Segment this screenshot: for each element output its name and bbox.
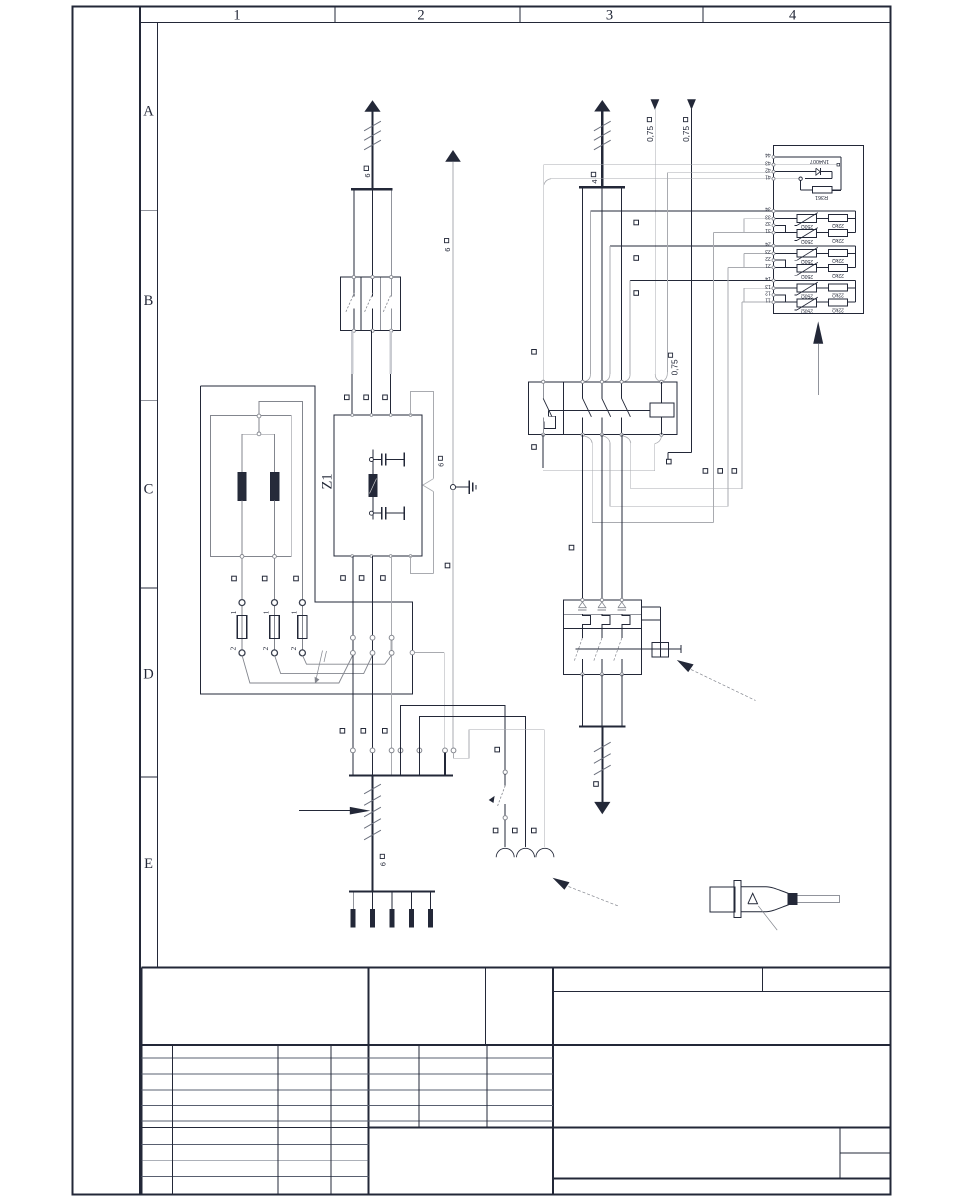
wire contactor to motor breaker (3)	[569, 435, 622, 600]
svg-text:14: 14	[765, 275, 771, 281]
wire fuse F1 to terminal L1	[242, 655, 353, 683]
wire feed arrow top-left	[364, 100, 381, 188]
wire resistor tap network (gray)	[232, 402, 303, 601]
aux bracket and test button	[642, 607, 681, 657]
wire PE to socket pin3 (gray)	[454, 730, 545, 847]
svg-text:22kΩ: 22kΩ	[832, 272, 844, 278]
pilot wire arrow 0,75 (second)	[667, 99, 696, 464]
svg-text:1N4007: 1N4007	[810, 158, 829, 164]
svg-text:4: 4	[789, 8, 797, 24]
label 0,75 (coil wire)	[668, 353, 679, 375]
bus bar N1	[349, 774, 453, 776]
svg-text:21: 21	[765, 262, 771, 268]
contactor coil K1	[650, 382, 674, 435]
svg-text:A: A	[143, 104, 154, 120]
wire module pin43 to contactor (gray)	[532, 165, 774, 381]
wire contactor L3 out to module S3 (gray)	[623, 288, 773, 489]
svg-text:34: 34	[765, 206, 771, 212]
svg-text:250Ω: 250Ω	[801, 293, 813, 299]
shield enclosure (gray)	[210, 416, 291, 557]
svg-text:22kΩ: 22kΩ	[832, 307, 844, 313]
wire bus to socket pin1	[401, 706, 506, 775]
motor protection breaker QM1	[563, 598, 641, 676]
svg-text:1: 1	[233, 8, 240, 24]
svg-text:13: 13	[765, 283, 771, 289]
wire fuse F3 to terminal L3	[302, 655, 391, 664]
svg-text:2: 2	[417, 8, 424, 24]
wire bar to contactor (3)	[583, 188, 622, 382]
disconnect contact S1	[489, 770, 508, 847]
wire PE riser to earth bar	[364, 777, 388, 891]
module pins 41-44	[765, 152, 775, 181]
svg-text:6: 6	[443, 248, 452, 252]
earth terminal bar (comb)	[349, 892, 435, 927]
module section 1: varistors and resistors	[765, 206, 856, 244]
leader arrow (test button callout)	[677, 660, 756, 701]
connector squares at socket	[493, 747, 536, 833]
svg-text:24: 24	[765, 240, 771, 246]
wire breaker to filter Z1	[345, 331, 391, 415]
terminal row nodes	[351, 635, 395, 655]
module section 2: varistors and resistors	[765, 240, 856, 278]
leader arrow (module callout)	[813, 321, 823, 394]
svg-text:23: 23	[765, 248, 771, 254]
connector squares above bus	[340, 729, 387, 734]
svg-text:6: 6	[363, 173, 372, 177]
wire bar to breaker (3 phases)	[354, 190, 391, 277]
wire contactor L2 out to module S2 (gray)	[604, 254, 774, 507]
thermal release triangles	[578, 602, 626, 610]
pilot wire arrow 0,75 (first)	[646, 99, 660, 381]
fuse F2 with pin labels 1,2	[261, 600, 279, 656]
wire contactor L1 out to module S1 (gray)	[584, 219, 773, 523]
circuit breaker QF1	[341, 276, 401, 333]
svg-text:3: 3	[606, 8, 613, 24]
svg-text:0,75: 0,75	[670, 359, 679, 375]
resistor Rb	[271, 434, 279, 556]
svg-text:42: 42	[765, 166, 771, 172]
feed arrow pointing to PE riser	[299, 807, 370, 815]
wire coil to aux contact (gray)	[532, 435, 662, 471]
supply arrow with label 4	[590, 100, 611, 187]
node top distribution bar	[351, 188, 393, 190]
enclosure outline (resistor network)	[201, 386, 413, 694]
wire filter case loop (gray)	[411, 391, 434, 573]
svg-text:D: D	[143, 667, 153, 683]
svg-text:2: 2	[229, 647, 238, 651]
outlet arrow down with hatch	[594, 727, 611, 814]
svg-text:250Ω: 250Ω	[801, 223, 813, 229]
svg-text:B: B	[144, 293, 154, 309]
node shield bond to PE	[410, 650, 444, 748]
fuse F1 with pin labels 1,2	[229, 600, 247, 656]
svg-text:E: E	[144, 856, 153, 872]
terminal row above bus	[351, 748, 456, 753]
wire fuse F2 to terminal L2	[275, 655, 373, 674]
svg-text:6: 6	[379, 862, 388, 866]
resistor module A1	[774, 145, 864, 313]
svg-text:22kΩ: 22kΩ	[832, 257, 844, 263]
svg-text:6: 6	[439, 463, 446, 467]
module section 3: varistors and resistors	[765, 275, 856, 313]
svg-text:250Ω: 250Ω	[801, 308, 813, 314]
sensor connector (inductive sensor)	[710, 880, 839, 930]
svg-text:22: 22	[765, 255, 771, 261]
fuse F3 with pin labels 1,2	[289, 600, 307, 656]
svg-text:250Ω: 250Ω	[801, 273, 813, 279]
node distribution bar right	[579, 186, 625, 188]
svg-text:32: 32	[765, 220, 771, 226]
svg-text:2: 2	[289, 647, 298, 651]
wire bus to socket pin2	[419, 716, 525, 847]
svg-text:12: 12	[765, 290, 771, 296]
resistor Ra	[238, 434, 246, 556]
svg-text:Z1: Z1	[320, 473, 336, 489]
svg-text:31: 31	[765, 227, 771, 233]
svg-text:R361: R361	[815, 194, 828, 200]
wire L2 filter to bus (bold)	[372, 556, 374, 774]
wire bus risers	[444, 752, 446, 774]
wire L1 filter to bus	[352, 556, 354, 774]
svg-text:22kΩ: 22kΩ	[832, 222, 844, 228]
ground (chassis earth)	[450, 480, 476, 494]
wire sense L1 to module (with gray drop)	[585, 211, 773, 382]
wire L3 filter to bus (gray)	[391, 556, 393, 774]
svg-text:2: 2	[261, 647, 270, 651]
wire motor breaker to outlet bar	[579, 674, 626, 726]
diode VD1 1N4007	[774, 157, 842, 190]
svg-text:43: 43	[765, 159, 771, 165]
contactor K1	[528, 380, 677, 436]
svg-text:22kΩ: 22kΩ	[832, 237, 844, 243]
connector squares below filter	[341, 576, 386, 581]
svg-text:250Ω: 250Ω	[801, 258, 813, 264]
socket X1 contacts	[496, 848, 554, 857]
svg-text:11: 11	[765, 297, 770, 303]
EMC filter Z1	[320, 414, 423, 558]
label 6 square (cable size)	[363, 166, 372, 178]
wire module pin41 (gray)	[544, 179, 774, 185]
leader arrow (socket callout)	[553, 878, 620, 907]
PE feed arrow with label 6	[438, 150, 460, 485]
svg-text:C: C	[144, 481, 154, 497]
svg-text:1: 1	[229, 610, 238, 614]
wire filter pin4 to bus (gray)	[411, 556, 434, 573]
leader arrow (fuse wiring callout)	[315, 651, 327, 684]
svg-text:41: 41	[765, 173, 771, 179]
wire sense L2 to module (with gray drop)	[605, 246, 774, 382]
wire module pin42 to coil (gray)	[663, 173, 774, 382]
svg-text:44: 44	[765, 152, 771, 158]
svg-text:1: 1	[262, 610, 271, 614]
svg-text:22kΩ: 22kΩ	[832, 292, 844, 298]
wire sense L3 to module (with gray drop)	[625, 281, 774, 382]
svg-text:0,75: 0,75	[646, 126, 655, 142]
resistor R361	[774, 177, 833, 200]
svg-text:33: 33	[765, 213, 771, 219]
wire PE down to terminal row	[445, 490, 453, 751]
svg-text:0,75: 0,75	[682, 126, 691, 142]
svg-text:4: 4	[590, 179, 599, 183]
svg-text:250Ω: 250Ω	[801, 238, 813, 244]
svg-text:1: 1	[290, 610, 299, 614]
